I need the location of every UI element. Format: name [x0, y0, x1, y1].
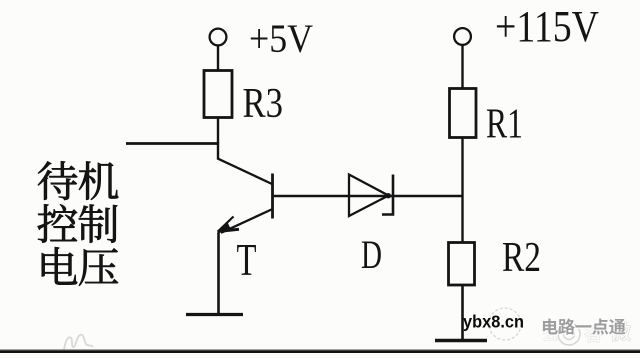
ground (R2)	[435, 339, 487, 343]
svg-text:R2: R2	[502, 235, 541, 281]
bottom bar	[0, 349, 640, 350]
svg-text:ybx8.cn: ybx8.cn	[463, 312, 524, 332]
diode D cathode bar	[382, 175, 393, 215]
svg-text:R3: R3	[243, 81, 284, 127]
watermark ghost stamp ring	[558, 323, 580, 345]
resistor R2	[449, 243, 475, 286]
watermark ghost squiggle bottom-left	[64, 335, 93, 350]
wire standby control input	[126, 142, 219, 145]
watermark 电路一点通	[544, 320, 559, 336]
transistor T emitter arrow	[218, 217, 240, 233]
transistor T emitter lead	[221, 209, 273, 233]
watermark ghost 么	[543, 327, 558, 342]
watermark ghost 微	[610, 322, 630, 342]
watermark stamp circle	[489, 308, 521, 340]
wire R2 to ground	[461, 285, 464, 341]
terminal +5V	[210, 29, 227, 46]
wire R1 to node	[461, 138, 463, 243]
node label: standby control voltage 待机控制电压	[38, 161, 77, 200]
svg-text:R1: R1	[486, 102, 523, 148]
transistor T base bar	[271, 174, 274, 219]
resistor R1	[450, 89, 477, 138]
svg-text:D: D	[361, 232, 382, 277]
resistor R3	[204, 71, 232, 118]
diode D anode triangle	[349, 175, 389, 217]
wire base to diode to node	[274, 195, 462, 197]
svg-text:+5V: +5V	[249, 16, 313, 61]
wire R3 to collector node	[217, 118, 219, 160]
svg-text:+115V: +115V	[495, 2, 599, 51]
wire emitter to ground	[217, 233, 220, 316]
junction dot diode cathode	[386, 193, 391, 198]
watermark ghost 谷	[584, 325, 602, 343]
terminal +115V	[454, 28, 471, 45]
wire terminal to R1	[461, 45, 463, 89]
ground (emitter)	[186, 313, 243, 316]
svg-text:T: T	[237, 234, 257, 285]
transistor T collector lead	[217, 158, 272, 184]
wire terminal to R3	[217, 46, 219, 71]
